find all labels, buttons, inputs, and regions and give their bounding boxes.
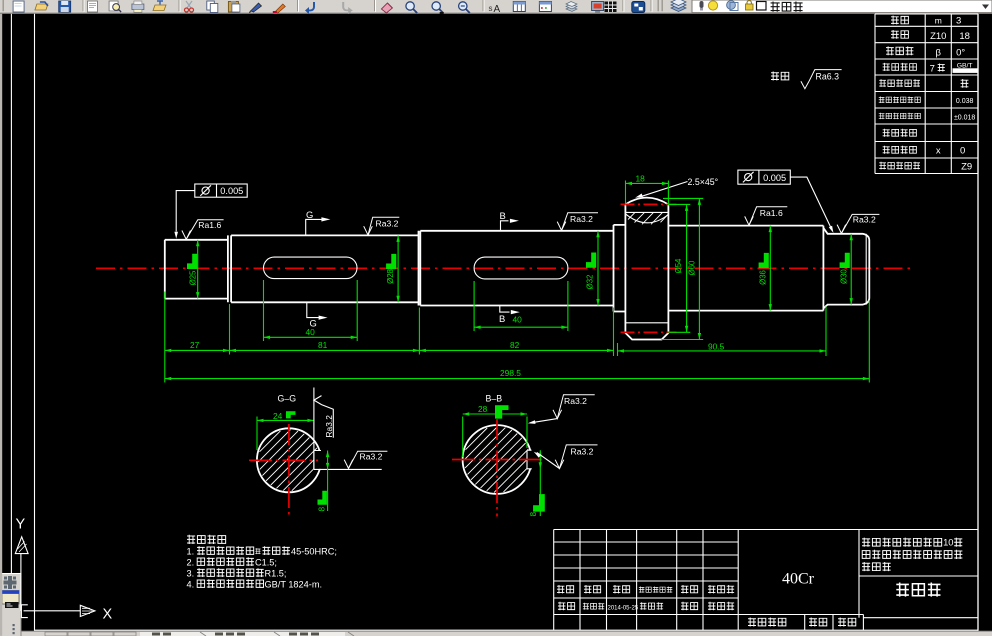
svg-text:0°: 0° — [956, 48, 965, 59]
svg-text:B: B — [499, 313, 505, 324]
section G-G centrelines (red) — [249, 459, 318, 461]
svg-text:X: X — [103, 607, 113, 623]
svg-text:3.: 3. — [187, 568, 195, 578]
svg-text:81: 81 — [318, 340, 328, 350]
svg-text:Ra1.6: Ra1.6 — [198, 220, 221, 230]
section G-G circle — [257, 428, 321, 492]
svg-text:1.: 1. — [187, 546, 195, 556]
svg-text:Z10: Z10 — [930, 31, 946, 42]
surface finish Ra3.2 step3 — [557, 213, 598, 231]
technical requirements text — [187, 535, 337, 590]
svg-text:82: 82 — [510, 340, 520, 350]
svg-text:0.038: 0.038 — [956, 98, 974, 105]
surface finish Ra3.2 step2 — [364, 217, 400, 235]
svg-text:10: 10 — [943, 537, 953, 548]
svg-text:m: m — [935, 16, 942, 26]
keyway slot B (40x8) — [474, 257, 568, 279]
shaft end chamfer circle line — [865, 234, 867, 305]
svg-text:24: 24 — [273, 411, 283, 421]
title block grid — [554, 530, 978, 631]
svg-text:Ra1.6: Ra1.6 — [760, 208, 783, 218]
gear pitch line bottom (red) — [621, 331, 677, 333]
UCS X-axis arrow — [80, 605, 95, 616]
svg-text:0: 0 — [960, 146, 965, 157]
gear hub shoulder — [614, 225, 626, 312]
svg-text:4.: 4. — [187, 579, 195, 589]
svg-text:27: 27 — [190, 340, 200, 350]
svg-text:28: 28 — [478, 404, 488, 414]
gear tooth root arc — [625, 214, 668, 223]
gear top addendum arc — [625, 198, 668, 205]
svg-text:A: A — [494, 4, 501, 15]
svg-text:Ra6.3: Ra6.3 — [816, 72, 840, 82]
table column1 labels — [879, 16, 921, 170]
section B-B centrelines (red) — [452, 459, 543, 461]
svg-text:298.5: 298.5 — [500, 368, 521, 378]
svg-text:Ra3.2: Ra3.2 — [376, 218, 399, 228]
dimension 40 keyway G — [264, 280, 358, 341]
section G-G hatching — [258, 430, 319, 491]
svg-text:0.005: 0.005 — [220, 186, 243, 196]
svg-text:Z9: Z9 — [961, 162, 972, 173]
gear tooth section line — [625, 211, 668, 213]
svg-text:Ø32: Ø32 — [586, 275, 595, 290]
svg-text:±0.018: ±0.018 — [954, 115, 975, 122]
dimension 28 (B-B) — [463, 404, 527, 457]
dimension dia30 — [840, 234, 853, 305]
svg-text:2.: 2. — [187, 557, 195, 567]
svg-text:40: 40 — [306, 327, 316, 337]
svg-text:Ra3.2: Ra3.2 — [571, 446, 594, 456]
gear tooth hatching — [628, 212, 668, 224]
svg-text:2.5×45°: 2.5×45° — [688, 177, 719, 187]
svg-text:Ø30: Ø30 — [840, 269, 849, 284]
dimension dia54 — [674, 204, 688, 332]
dimension dia60 — [688, 198, 702, 339]
dimension dia28 — [386, 235, 400, 302]
svg-text:GB/T 1824-m.: GB/T 1824-m. — [265, 579, 323, 589]
chamfer note 2.5x45 — [635, 177, 718, 198]
title block row: biaoji/chushu/fenqu/qianming/nianyueri — [557, 585, 734, 593]
part name zhongjianzhou — [896, 583, 909, 597]
keyway slot G (40x8) — [264, 257, 358, 279]
dimension 8 (B-B keyway width) — [528, 450, 545, 516]
UCS Y-axis arrow — [15, 537, 28, 554]
title block bottom row labels — [748, 618, 856, 627]
dimension 24 (G-G) — [257, 388, 314, 470]
svg-text:2014-05-25: 2014-05-25 — [608, 605, 639, 611]
layer combo box — [692, 0, 992, 13]
section B-B keyway cutout — [527, 451, 537, 469]
UCS Y-axis line — [20, 554, 22, 611]
svg-text:Ø36: Ø36 — [758, 270, 767, 285]
section mark G top — [306, 209, 331, 235]
table column3 values — [953, 16, 978, 173]
roughness Ra3.2 rotated (G-G keyway side) — [314, 396, 334, 438]
section mark B bottom — [499, 306, 520, 324]
svg-text:G: G — [306, 209, 313, 220]
roughness Ra3.2 (G-G keyway bottom) — [344, 451, 387, 468]
svg-text:Ra3.2: Ra3.2 — [570, 214, 593, 224]
svg-text:B–B: B–B — [486, 394, 503, 404]
section B-B circle — [463, 425, 532, 494]
UCS X-axis line — [24, 610, 81, 612]
sheet border outer left — [10, 14, 12, 574]
shaft step 3 (dia32x82) — [420, 231, 613, 306]
svg-text:45-50HRC;: 45-50HRC; — [291, 546, 337, 556]
svg-text:Ra3.2: Ra3.2 — [360, 452, 383, 462]
dimension 40 keyway B — [474, 281, 568, 331]
sheet border inner left — [34, 14, 36, 631]
svg-text:Ra3.2: Ra3.2 — [853, 214, 876, 224]
svg-text:B: B — [500, 210, 506, 221]
bottom status bar — [0, 631, 992, 636]
main centreline (axis) — [96, 267, 910, 269]
svg-text:Ra3.2: Ra3.2 — [564, 396, 587, 406]
svg-text:90.5: 90.5 — [708, 342, 725, 352]
app window left edge — [0, 14, 2, 636]
svg-text:3: 3 — [956, 16, 961, 27]
shaft step 1 (dia25x27) — [165, 235, 228, 302]
surface finish Ra3.2 dia30 — [837, 214, 879, 233]
title block row: sheji / shuzhihui / 2014-05-25 / biaozhunhua — [558, 602, 734, 612]
gear rim line bottom — [625, 322, 668, 324]
svg-text:18: 18 — [636, 173, 646, 183]
roughness Ra3.2 leader 2 (B-B) — [555, 445, 597, 469]
left dock toolbar panel — [0, 574, 22, 636]
gear blank dia60x18 — [625, 204, 668, 339]
gear pitch line top (red) — [621, 203, 677, 205]
section mark G bottom — [307, 303, 328, 329]
svg-text:40Cr: 40Cr — [782, 571, 815, 588]
runout tolerance frame 1 (0.005) — [174, 184, 247, 239]
dimension dia25 — [188, 240, 199, 299]
shaft section dia36 — [668, 226, 823, 311]
svg-text:0.005: 0.005 — [763, 173, 786, 183]
section G-G keyway cutout — [314, 451, 323, 469]
sheet border right — [977, 14, 979, 631]
svg-text:R1.5;: R1.5; — [265, 568, 287, 578]
svg-text:8: 8 — [317, 507, 327, 512]
top toolbar background — [0, 0, 992, 14]
gear parameter table grid — [875, 14, 978, 174]
svg-text:7: 7 — [930, 64, 935, 75]
svg-text:C1.5;: C1.5; — [255, 557, 277, 567]
svg-text:s: s — [489, 4, 493, 13]
svg-text:Ø28: Ø28 — [386, 269, 395, 284]
dimension 18 (gear width) — [626, 173, 669, 204]
sheet border bottom — [35, 629, 979, 631]
svg-text:β: β — [936, 48, 942, 59]
roughness Ra3.2 leader 1 (B-B) — [553, 395, 595, 419]
length dimension chain 27 / 81 / 82 / 90.5 — [165, 292, 870, 383]
general roughness note qiyu Ra6.3 — [771, 70, 842, 89]
section B-B hatching — [464, 427, 530, 493]
dimension dia36 — [758, 226, 772, 311]
svg-text:G–G: G–G — [278, 394, 297, 404]
dimension 8 (G-G keyway width) — [317, 451, 330, 512]
dimension dia32 — [586, 231, 600, 306]
shaft end dia30 with chamfers — [823, 228, 869, 308]
overall length dimension 298.5 — [165, 368, 870, 380]
runout tolerance frame 2 (0.005) — [738, 170, 834, 233]
svg-text:18: 18 — [959, 31, 970, 42]
svg-text:Y: Y — [16, 517, 26, 533]
svg-text:x: x — [936, 146, 941, 157]
svg-text:Ra3.2: Ra3.2 — [324, 415, 334, 438]
table column2 values — [930, 16, 947, 157]
school name text — [862, 537, 962, 572]
section mark B top — [500, 210, 519, 231]
surface finish Ra1.6 step1 — [182, 220, 224, 240]
svg-text:Ø25: Ø25 — [188, 270, 197, 285]
toolbar icons — [3, 0, 687, 15]
gear dim extension lines — [661, 198, 703, 339]
svg-text:40: 40 — [513, 315, 523, 325]
UCS origin bracket — [21, 605, 27, 618]
svg-text:8: 8 — [528, 512, 538, 517]
svg-text:Ø54: Ø54 — [674, 258, 683, 273]
shaft step 2 (dia28x81) — [231, 231, 418, 306]
svg-text:Ø60: Ø60 — [688, 260, 697, 275]
surface finish Ra1.6 dia36 — [745, 207, 788, 225]
